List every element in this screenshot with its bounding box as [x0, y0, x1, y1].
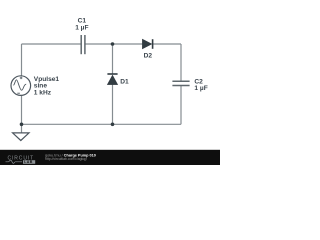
svg-text:http://circuitlab.com/c/agkqy: http://circuitlab.com/c/agkqy — [45, 157, 87, 161]
svg-text:1 µF: 1 µF — [194, 85, 207, 92]
svg-text:D1: D1 — [120, 79, 129, 86]
svg-text:C1: C1 — [78, 18, 87, 25]
svg-text:1 µF: 1 µF — [75, 25, 88, 32]
svg-text:1 kHz: 1 kHz — [34, 89, 52, 96]
svg-text:LAB: LAB — [24, 160, 33, 164]
svg-text:D2: D2 — [144, 53, 153, 60]
